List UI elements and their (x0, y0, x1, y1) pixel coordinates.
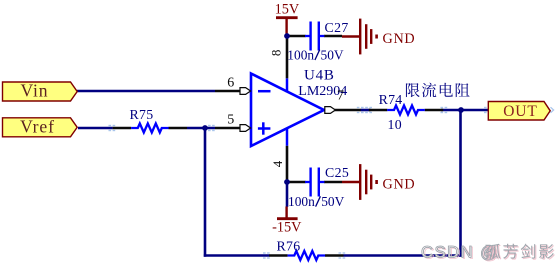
label 100n/50V bottom (288, 194, 345, 209)
resistor R76 (269, 251, 343, 260)
svg-text:U4B: U4B (304, 67, 335, 83)
svg-text:-15V: -15V (272, 220, 302, 236)
wire R74 to OUT flag (441, 109, 489, 112)
port flag Vref (3, 117, 78, 137)
junction node at pin 5 / feedback (202, 125, 208, 131)
svg-text:50V: 50V (321, 194, 344, 209)
svg-text:5: 5 (227, 112, 234, 127)
svg-text:100n: 100n (288, 194, 315, 209)
label 限流电阻 (current-limiting resistor) (406, 83, 470, 98)
wire right vertical to OUT node (459, 110, 462, 257)
pin 5 wire and arrow (215, 125, 251, 132)
watermark CSDN@孤芳剑影 (421, 242, 555, 262)
svg-text:7: 7 (337, 88, 344, 103)
wire R76 to right vertical (344, 254, 462, 257)
capacitor C25 (287, 168, 342, 197)
wire Vin to pin 6 (77, 90, 215, 93)
svg-text:15V: 15V (275, 2, 300, 18)
label 100n/50V top (287, 48, 344, 63)
pin 6 wire and arrow (215, 88, 251, 95)
op-amp U4B LM2904 (251, 74, 324, 147)
svg-text:Vref: Vref (20, 117, 55, 137)
svg-text:R76: R76 (277, 239, 301, 254)
port flag Vin (3, 81, 78, 101)
svg-text:10: 10 (388, 117, 402, 132)
junction node at output / OUT (458, 107, 464, 113)
pin 8 wire (286, 35, 289, 78)
wire-end marker at OUT tip (551, 107, 554, 113)
wire to -15V power port (286, 182, 289, 207)
pin 4 wire (286, 146, 289, 182)
svg-text:GND: GND (383, 31, 416, 47)
wire Vref to R75 (78, 127, 113, 130)
svg-text:8: 8 (269, 50, 284, 57)
resistor R75 (113, 124, 187, 133)
svg-text:C27: C27 (325, 20, 349, 35)
wire feedback left vertical (204, 127, 207, 257)
port flag OUT (488, 102, 550, 121)
svg-text:GND: GND (383, 176, 416, 192)
wire R75 to pin 5 (187, 127, 215, 130)
wire-end markers (109, 107, 491, 259)
power port -15V (272, 207, 302, 236)
svg-text:50V: 50V (321, 48, 344, 63)
ground GND (342, 19, 415, 55)
svg-text:100n: 100n (287, 48, 314, 63)
wire pin 7 to R74 (361, 109, 371, 112)
svg-text:6: 6 (227, 76, 234, 91)
svg-text:R74: R74 (379, 92, 403, 107)
svg-text:4: 4 (270, 160, 285, 167)
resistor R74 (369, 106, 443, 115)
power port +15V (275, 2, 300, 35)
svg-text:OUT: OUT (503, 103, 538, 120)
capacitor C27 (287, 22, 342, 51)
svg-text:R75: R75 (130, 107, 154, 122)
junction node at pin 8 / C27 / +15V (284, 33, 290, 39)
pin 7 output wire and arrow (325, 107, 361, 114)
junction node at pin 4 / C25 / -15V (284, 179, 290, 185)
ground GND (342, 164, 415, 200)
wire bottom to R76 (204, 254, 270, 257)
svg-text:C25: C25 (325, 165, 349, 180)
svg-text:Vin: Vin (20, 81, 48, 101)
